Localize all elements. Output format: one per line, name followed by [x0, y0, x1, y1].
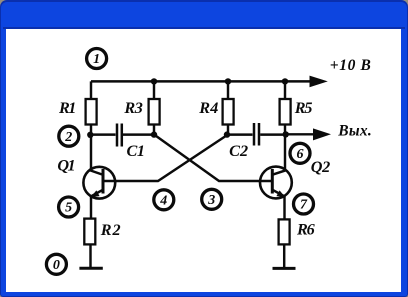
svg-text:R4: R4 — [198, 99, 218, 117]
svg-text:1: 1 — [93, 52, 100, 67]
svg-text:R2: R2 — [100, 221, 121, 239]
svg-text:R3: R3 — [123, 99, 142, 117]
svg-text:0: 0 — [53, 258, 60, 273]
svg-text:6: 6 — [297, 147, 304, 162]
svg-text:R6: R6 — [296, 220, 316, 238]
svg-text:+10 В: +10 В — [330, 57, 371, 74]
svg-text:5: 5 — [65, 201, 72, 216]
svg-text:Вых.: Вых. — [337, 123, 371, 140]
svg-text:2: 2 — [64, 130, 72, 145]
svg-text:R1: R1 — [58, 99, 76, 117]
svg-text:Q2: Q2 — [311, 158, 330, 176]
svg-text:4: 4 — [159, 194, 167, 209]
svg-text:7: 7 — [300, 198, 308, 213]
svg-text:R5: R5 — [294, 99, 313, 117]
svg-text:C1: C1 — [126, 142, 145, 160]
svg-text:C2: C2 — [229, 142, 248, 160]
svg-text:Q1: Q1 — [57, 157, 75, 175]
svg-text:3: 3 — [207, 193, 215, 208]
